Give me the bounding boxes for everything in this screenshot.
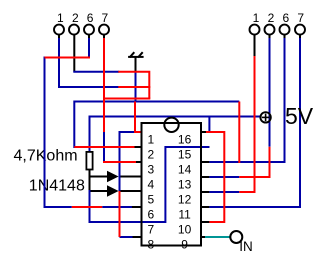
diode D2 1N4148	[107, 185, 119, 197]
wire: 5V rail y116.5 and resistor top lead (blue)	[90, 117, 261, 153]
svg-text:6: 6	[87, 11, 94, 25]
wire: row98.5 segment (red)	[104, 98, 150, 100]
wire: cathode column lower segment to IC pin8 corner (red)	[119, 191, 121, 237]
wire: ground column lower segment into IC pin1 (red)	[135, 102, 142, 133]
diode D1 1N4148	[107, 171, 119, 183]
svg-text:15: 15	[178, 147, 192, 161]
svg-text:7: 7	[147, 222, 154, 236]
wire: row162 to IC pin3 (red)	[103, 161, 136, 163]
wire: row102 horizontal with drop to IC pin2 column (blue)	[74, 102, 239, 149]
wire: left header pin1 stub (black)	[58, 35, 60, 39]
right header pin 2 terminal	[265, 25, 275, 35]
IC U1 pin stubs right (pins 16-9)	[201, 132, 209, 237]
svg-text:7: 7	[102, 11, 109, 25]
wire: IC pin 9 stub black piece	[201, 236, 206, 238]
wire: IC pin1 row and cathode column upper segment (blue)	[120, 132, 136, 192]
IC U1 pin stubs left (pins 1-8)	[132, 132, 142, 237]
wire: left pin7 column blue segment 131-162	[103, 131, 105, 163]
wire: column 239.3 from row102 to row162 (red)	[238, 102, 240, 164]
wire: resistor-diode bus down and under-chip row222 (blue)	[90, 190, 166, 222]
svg-text:12: 12	[178, 192, 192, 206]
wire: left header pin6 stub (black)	[88, 35, 90, 39]
left header pin 1 terminal	[54, 25, 64, 35]
wire: right header pin6 stub (black)	[284, 35, 286, 39]
svg-text:13: 13	[178, 177, 192, 191]
svg-text:7: 7	[297, 11, 304, 25]
svg-text:1: 1	[57, 11, 64, 25]
wire: row57.5 left header pin6 net (red)	[45, 57, 91, 59]
left header pin 2 terminal	[69, 25, 79, 35]
wire: row72 right segment and column 149.3 (red)	[118, 72, 149, 99]
left header pin 7 terminal	[99, 25, 109, 35]
right header pin 7 terminal	[295, 25, 305, 35]
svg-text:2: 2	[268, 11, 275, 25]
right header pin 6 terminal	[280, 25, 290, 35]
wire: row162 pin14 to right header pin6 (blue)	[209, 38, 284, 162]
wire: net row72 left segment (blue)	[74, 71, 119, 72]
wire: diode D1 anode stub (black)	[90, 176, 109, 178]
svg-text:2: 2	[72, 11, 79, 25]
svg-text:8: 8	[147, 237, 154, 251]
svg-text:1N4148: 1N4148	[29, 178, 85, 195]
svg-text:2: 2	[147, 147, 154, 161]
wire: right header pin2 vertical lower to row177 (red)	[239, 147, 269, 177]
svg-text:9: 9	[181, 237, 188, 251]
resistor R1 4.7k body	[86, 152, 92, 170]
ground symbol	[128, 52, 144, 73]
svg-text:10: 10	[178, 222, 192, 236]
wire: left header pin2 vertical (black)	[73, 35, 75, 72]
IN terminal circle	[230, 231, 242, 243]
svg-text:1: 1	[147, 132, 154, 146]
wire: left header pin7 stub (black)	[103, 35, 105, 39]
wire: internal vertical to IC pin15 row (blue)	[165, 147, 209, 223]
svg-text:6: 6	[147, 207, 154, 221]
wire: IC pin9 to IN terminal (teal)	[205, 236, 231, 238]
IC U1 notch circle	[164, 118, 178, 132]
wire: left header pin6 drop (blue)	[88, 38, 90, 59]
wire: right header pin7 stub (black)	[299, 35, 301, 39]
wire: right header pin1 vertical to row192 (red)	[239, 56, 254, 192]
svg-text:IN: IN	[239, 239, 253, 254]
wire: row207 middle segment to IC pin6 (blue)	[102, 206, 132, 208]
wire: IC pin8 row segment (blue)	[120, 236, 133, 238]
wire: row192 pin12 blue segment	[209, 191, 239, 193]
wire: row207 red middle segment (red)	[72, 206, 102, 208]
wire: ground column segment 72-101.5 (blue)	[135, 71, 137, 103]
wire: IC pin16 drop from 5V rail (blue)	[208, 117, 210, 134]
svg-text:5V: 5V	[285, 103, 314, 129]
left header pin 6 terminal	[84, 25, 94, 35]
wire: right header pin1 vertical upper segment (black)	[254, 35, 256, 56]
wire: right header pin2 stub (black)	[269, 35, 271, 39]
5V supply symbol	[260, 112, 270, 122]
wire: resistor bottom lead to diode anodes (black)	[89, 169, 91, 191]
wire: IC pin16 over to column 224.3 down to pin10 row (red)	[206, 132, 224, 222]
svg-text:1: 1	[253, 11, 260, 25]
wire: row87 right segment (red)	[118, 86, 150, 88]
svg-text:3: 3	[147, 162, 154, 176]
wire: row207 pin11 to right header pin7 (blue)	[209, 38, 300, 207]
wire: column 44.5 long vertical and row207 left (blue)	[45, 57, 72, 208]
svg-text:16: 16	[178, 132, 192, 146]
wire: right header pin2 drop upper segment (blue)	[269, 38, 271, 147]
wire: diode D2 anode stub (black)	[90, 190, 109, 192]
IC U1 body outline	[142, 123, 202, 246]
wire: diode D1 cathode to IC pin 4 (black)	[119, 176, 142, 178]
svg-text:11: 11	[178, 207, 191, 221]
right header pin 1 terminal	[250, 25, 260, 35]
wire: row147 to IC pin2 (red)	[74, 146, 134, 148]
wire: diode D2 cathode to IC pin 5 (black)	[119, 190, 142, 192]
svg-text:4: 4	[147, 177, 154, 191]
svg-text:14: 14	[178, 162, 192, 176]
wire: left header pin7 vertical (red)	[103, 38, 105, 132]
wire: left header pin1 drop and row87 (blue)	[59, 38, 119, 87]
svg-text:5: 5	[147, 192, 154, 206]
svg-text:6: 6	[282, 11, 289, 25]
wire: row177 pin13 blue segment	[209, 176, 239, 178]
svg-text:4,7Kohm: 4,7Kohm	[14, 147, 78, 164]
